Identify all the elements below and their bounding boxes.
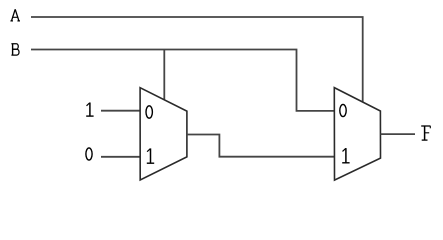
constant 0 value label	[86, 148, 92, 160]
node F	[421, 126, 430, 140]
U1 pin label 0	[146, 106, 152, 118]
U2 pin label 0	[340, 104, 346, 116]
U1 pin label 1	[147, 148, 154, 163]
multiplexer U2 body	[334, 88, 380, 181]
wire B from input to U2 input 0	[31, 50, 334, 111]
wire constant 0 to U1 input 1	[101, 156, 140, 158]
wire U2 output to F	[381, 133, 416, 135]
wire constant 1 to U1 input 0	[101, 110, 140, 112]
wire B branch to U1 select	[163, 50, 165, 100]
node B	[11, 44, 19, 55]
node A	[10, 9, 20, 21]
multiplexer U1 body	[140, 88, 187, 180]
wire U1 output to U2 input 1	[187, 135, 334, 157]
wire A from input to U2 select	[31, 17, 363, 102]
U2 pin label 1	[342, 148, 349, 163]
constant 1 value label	[86, 103, 93, 117]
